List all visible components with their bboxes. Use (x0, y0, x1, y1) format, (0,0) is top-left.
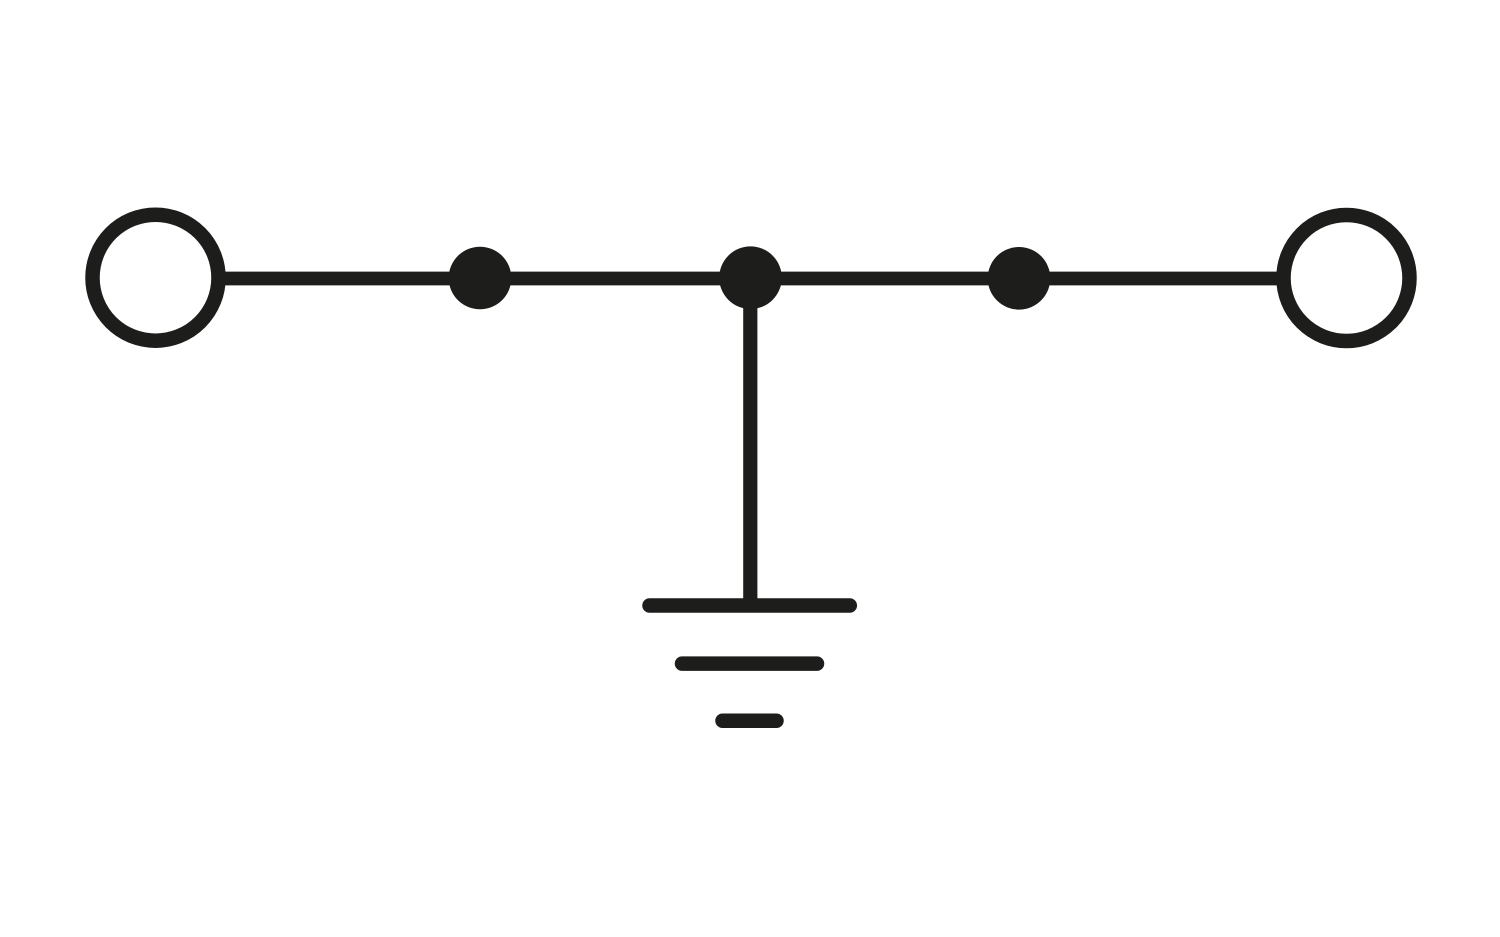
ground PE: top bar (650, 598, 850, 613)
junction dot (right clamp point) (988, 247, 1051, 310)
terminal X1 (left connection point, open circle) (93, 215, 219, 341)
ground PE: middle bar (682, 656, 817, 671)
wire: horizontal bus from left terminal to right terminal (222, 272, 1280, 286)
junction dot (center clamp point) (719, 246, 782, 309)
terminal X2 (right connection point, open circle) (1284, 215, 1410, 341)
junction dot (left clamp point) (449, 247, 512, 310)
wire: vertical drop from center junction to ground (743, 278, 757, 606)
ground PE: bottom bar (723, 714, 777, 729)
